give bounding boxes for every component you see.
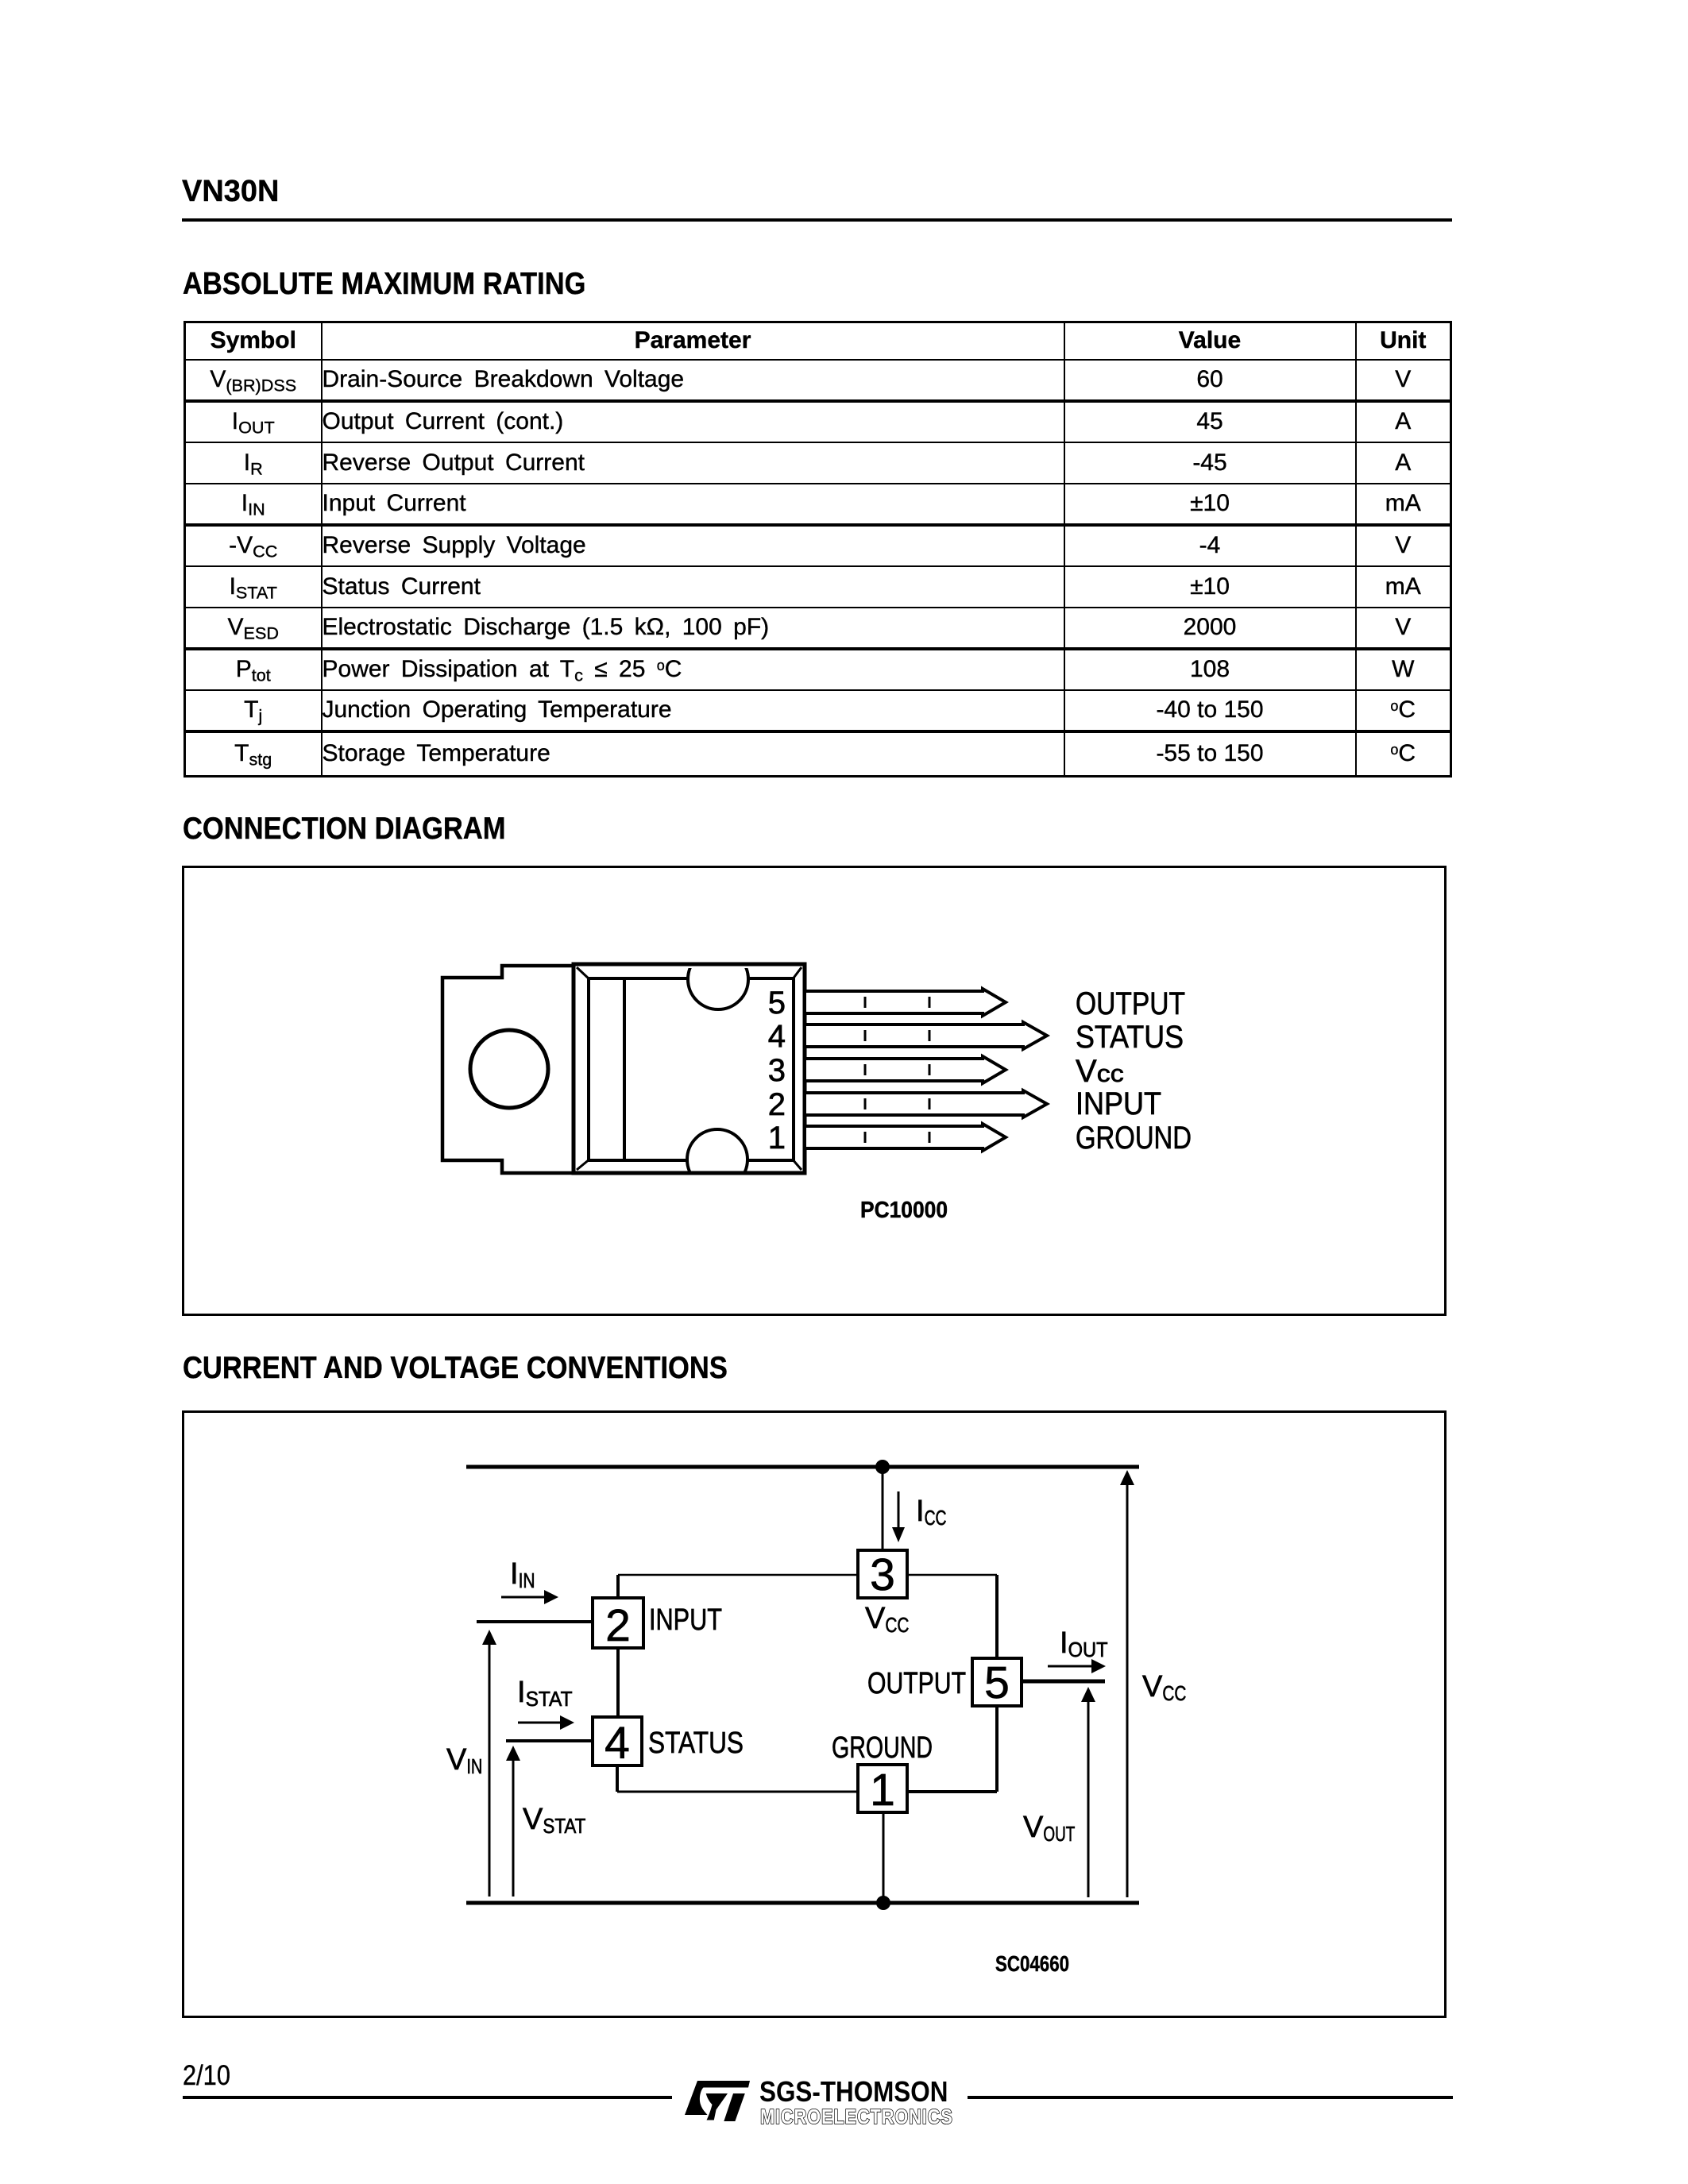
svg-text:GROUND: GROUND (1076, 1121, 1192, 1156)
svg-text:INPUT: INPUT (649, 1603, 722, 1637)
svg-text:5: 5 (768, 986, 786, 1021)
svg-text:VSTAT: VSTAT (523, 1803, 585, 1838)
svg-text:5: 5 (984, 1657, 1010, 1708)
svg-text:1: 1 (768, 1121, 786, 1156)
svg-text:VCC: VCC (865, 1602, 909, 1637)
svg-text:INPUT: INPUT (1076, 1086, 1161, 1121)
svg-text:2: 2 (768, 1087, 786, 1122)
svg-text:ISTAT: ISTAT (517, 1676, 573, 1711)
svg-text:STATUS: STATUS (1076, 1020, 1184, 1055)
svg-text:STATUS: STATUS (648, 1727, 744, 1760)
svg-text:SGS-THOMSON: SGS-THOMSON (759, 2076, 948, 2108)
svg-text:VOUT: VOUT (1023, 1811, 1075, 1846)
svg-text:PC10000: PC10000 (860, 1198, 948, 1223)
svg-text:VIN: VIN (446, 1743, 482, 1778)
svg-text:ICC: ICC (916, 1495, 947, 1530)
svg-text:4: 4 (768, 1019, 786, 1054)
svg-text:SC04660: SC04660 (995, 1951, 1069, 1976)
svg-text:IIN: IIN (510, 1557, 535, 1592)
svg-text:2: 2 (605, 1600, 631, 1651)
svg-text:VCC: VCC (1142, 1670, 1186, 1705)
svg-text:OUTPUT: OUTPUT (1076, 986, 1185, 1021)
svg-text:Vcc: Vcc (1076, 1054, 1124, 1089)
svg-text:GROUND: GROUND (832, 1731, 933, 1765)
svg-text:3: 3 (870, 1549, 895, 1600)
svg-text:4: 4 (605, 1718, 630, 1769)
svg-text:1: 1 (870, 1765, 895, 1815)
svg-text:3: 3 (768, 1053, 786, 1088)
svg-text:IOUT: IOUT (1060, 1626, 1108, 1661)
svg-text:MICROELECTRONICS: MICROELECTRONICS (760, 2105, 953, 2128)
svg-text:OUTPUT: OUTPUT (867, 1667, 966, 1700)
